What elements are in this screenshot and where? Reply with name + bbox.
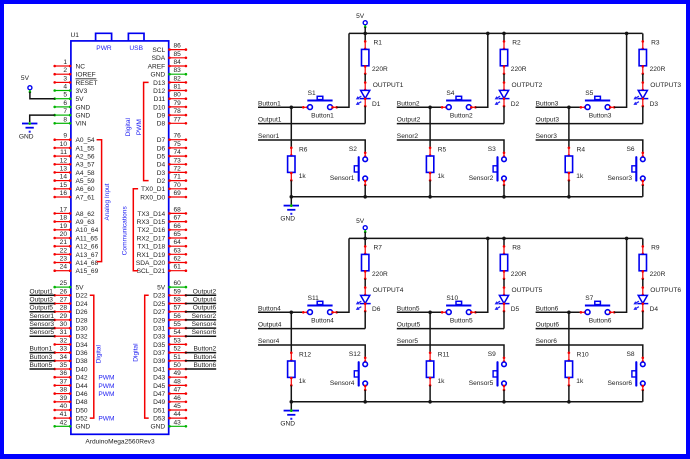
wire Senor6 <box>536 345 643 358</box>
pin 80 (D11) right <box>154 92 188 103</box>
svg-text:78: 78 <box>174 108 182 115</box>
svg-text:D10: D10 <box>153 104 165 111</box>
svg-text:S8: S8 <box>627 351 635 358</box>
svg-text:53: 53 <box>174 337 182 344</box>
svg-text:VIN: VIN <box>76 121 87 128</box>
pin 13 (A4_58) left <box>53 165 94 176</box>
net label Sensor5 (U1 left) <box>30 329 55 336</box>
wire R3 to D3 <box>642 74 644 83</box>
svg-text:Button2: Button2 <box>397 100 420 107</box>
pin 65 (RX2_D17) right <box>137 231 188 242</box>
svg-text:Sensor5: Sensor5 <box>469 380 494 387</box>
svg-text:Sensor6: Sensor6 <box>192 329 217 336</box>
svg-text:Digital: Digital <box>125 118 132 137</box>
wire S12 to GND rail <box>364 390 366 402</box>
svg-text:65: 65 <box>174 231 182 238</box>
switch S4 <box>441 90 477 110</box>
svg-text:D41: D41 <box>153 366 165 373</box>
svg-text:D34: D34 <box>76 342 88 349</box>
svg-text:Communications: Communications <box>121 206 128 256</box>
pin 73 (D4) right <box>157 157 187 168</box>
wire Button5 <box>397 311 443 313</box>
svg-text:D37: D37 <box>153 350 165 357</box>
net label Sensor2 (U1 right) <box>185 313 217 320</box>
wire Output2 <box>397 123 504 125</box>
svg-text:10: 10 <box>60 141 68 148</box>
svg-text:5V: 5V <box>21 75 30 82</box>
svg-text:Output3: Output3 <box>536 117 560 124</box>
svg-text:46: 46 <box>174 395 182 402</box>
pin 58 (D25) right <box>153 297 187 308</box>
wire D4 cathode to Output6 <box>642 311 644 328</box>
svg-text:GND: GND <box>151 72 166 79</box>
svg-text:74: 74 <box>174 149 182 156</box>
junction S2 / GND rail <box>363 195 367 199</box>
svg-text:70: 70 <box>174 182 182 189</box>
svg-text:Output3: Output3 <box>30 297 54 304</box>
resistor R7 <box>362 238 389 280</box>
svg-text:D7: D7 <box>157 137 166 144</box>
svg-text:Button6: Button6 <box>193 362 216 369</box>
svg-text:D3: D3 <box>157 170 166 177</box>
pin 54 (D33) right <box>153 329 187 340</box>
svg-text:A3_57: A3_57 <box>76 162 95 169</box>
svg-text:82: 82 <box>174 75 182 82</box>
svg-text:A11_65: A11_65 <box>76 235 99 242</box>
pin 7 (GND) left <box>53 108 90 119</box>
svg-text:Button4: Button4 <box>258 305 281 312</box>
svg-text:75: 75 <box>174 141 182 148</box>
pin 37 (D44) left <box>53 378 88 389</box>
pin 14 (A5_59) left <box>53 174 94 185</box>
svg-text:D5: D5 <box>157 154 166 161</box>
svg-text:Sensor6: Sensor6 <box>608 380 633 387</box>
net label Button5 (U1 left) <box>30 362 55 369</box>
supply +5V (left) <box>21 75 32 93</box>
pin 28 (D26) left <box>53 305 88 316</box>
pin 40 (D50) left <box>53 403 88 414</box>
group bracket Digital/PWM (D13-D2) <box>144 82 149 180</box>
svg-text:OUTPUT2: OUTPUT2 <box>512 82 543 89</box>
svg-text:D8: D8 <box>157 121 166 128</box>
pin 5 (5V) left <box>53 92 84 103</box>
svg-text:5V: 5V <box>157 285 166 292</box>
pin 32 (D34) left <box>53 337 88 348</box>
pin 42 (GND) left <box>53 419 90 430</box>
svg-text:71: 71 <box>174 174 182 181</box>
svg-text:22: 22 <box>60 247 68 254</box>
svg-text:TX3_D14: TX3_D14 <box>137 211 165 218</box>
net label Sensor3 (U1 left) <box>30 321 55 328</box>
wire Output6 <box>536 328 643 330</box>
LED D5 <box>495 286 520 313</box>
svg-text:R6: R6 <box>299 146 308 153</box>
svg-text:Output2: Output2 <box>193 288 217 295</box>
svg-text:A9_63: A9_63 <box>76 219 95 226</box>
group bracket Digital (D23-D53) bottom-right <box>145 295 149 418</box>
svg-text:S9: S9 <box>488 351 496 358</box>
wire 5V to rail <box>364 232 366 238</box>
svg-text:Button1: Button1 <box>30 346 53 353</box>
svg-text:220R: 220R <box>511 66 527 73</box>
svg-text:19: 19 <box>60 223 68 230</box>
svg-text:52: 52 <box>174 346 182 353</box>
wire Button2 <box>397 106 443 108</box>
svg-text:TX2_D16: TX2_D16 <box>137 227 165 234</box>
svg-text:40: 40 <box>60 403 68 410</box>
svg-text:D29: D29 <box>153 317 165 324</box>
wire S11 to 5V rail <box>337 238 350 312</box>
junction Button3 / R4 <box>567 106 571 110</box>
svg-text:62: 62 <box>174 256 182 263</box>
svg-text:S5: S5 <box>585 90 593 97</box>
svg-text:Button1: Button1 <box>258 100 281 107</box>
svg-text:D1: D1 <box>372 101 381 108</box>
svg-text:41: 41 <box>60 411 68 418</box>
junction Button5 / R11 <box>428 311 432 315</box>
svg-text:30: 30 <box>60 321 68 328</box>
svg-text:D50: D50 <box>76 407 88 414</box>
svg-text:D53: D53 <box>153 416 165 423</box>
svg-text:GND: GND <box>19 133 34 140</box>
pin 1 (NC) left <box>53 59 85 70</box>
wire Button6 <box>536 311 582 313</box>
wire Output5 <box>397 328 504 330</box>
svg-text:PWR: PWR <box>96 45 112 52</box>
svg-text:1k: 1k <box>438 378 446 385</box>
junction S9 / GND rail <box>502 400 506 404</box>
svg-text:Output4: Output4 <box>193 297 217 304</box>
pin 31 (D32) left <box>53 329 88 340</box>
pin 8 (VIN) left <box>53 116 86 127</box>
svg-text:A4_58: A4_58 <box>76 170 95 177</box>
svg-text:44: 44 <box>174 411 182 418</box>
wire R9 to D4 <box>642 279 644 288</box>
supply +5V (circuit row 2) <box>356 218 367 233</box>
resistor R11 1k <box>426 312 449 402</box>
svg-text:Output5: Output5 <box>30 305 54 312</box>
ground GND (left) <box>19 122 38 140</box>
switch S11 <box>302 295 338 315</box>
svg-text:R5: R5 <box>438 146 447 153</box>
svg-text:PWM: PWM <box>98 375 114 382</box>
svg-text:54: 54 <box>174 329 182 336</box>
net label Button3 (U1 left) <box>30 354 55 361</box>
svg-text:GND: GND <box>280 420 295 427</box>
svg-text:12: 12 <box>60 157 68 164</box>
LED D2 <box>495 81 520 108</box>
svg-text:1k: 1k <box>576 378 584 385</box>
svg-text:Senor3: Senor3 <box>536 133 558 140</box>
wire Button1 <box>258 106 304 108</box>
svg-text:5: 5 <box>63 92 67 99</box>
svg-text:D48: D48 <box>76 399 88 406</box>
svg-text:R1: R1 <box>374 39 383 46</box>
svg-text:Output6: Output6 <box>536 322 560 329</box>
pin 52 (D37) right <box>153 346 187 357</box>
svg-text:28: 28 <box>60 305 68 312</box>
svg-text:23: 23 <box>60 256 68 263</box>
pin 71 (D2) right <box>157 174 187 185</box>
svg-text:D11: D11 <box>154 96 166 103</box>
net label Output5 (U1 left) <box>30 305 55 312</box>
svg-text:D46: D46 <box>76 391 88 398</box>
svg-text:SCL_D21: SCL_D21 <box>137 268 166 275</box>
pin 79 (D10) right <box>153 100 187 111</box>
pin 47 (D47) right <box>153 387 187 398</box>
svg-text:S6: S6 <box>627 146 635 153</box>
group bracket Analog Input (A0_54-A15_69) <box>97 140 102 262</box>
svg-text:S4: S4 <box>446 90 454 97</box>
pin 59 (D23) right <box>153 288 187 299</box>
wire R8 to D5 <box>503 279 505 288</box>
svg-text:A2_56: A2_56 <box>76 154 95 161</box>
svg-text:D28: D28 <box>76 317 88 324</box>
svg-text:RESET: RESET <box>76 80 98 87</box>
svg-text:D38: D38 <box>76 358 88 365</box>
pin 9 (A0_54) left <box>53 133 94 144</box>
svg-text:31: 31 <box>60 329 68 336</box>
svg-text:7: 7 <box>63 108 67 115</box>
net label Sensor6 (U1 right) <box>185 329 217 336</box>
wire GND supply to pin 7 <box>30 115 55 122</box>
LED D4 <box>633 286 658 313</box>
svg-text:220R: 220R <box>372 66 388 73</box>
pin 55 (D31) right <box>153 321 187 332</box>
svg-text:220R: 220R <box>511 271 527 278</box>
svg-text:A5_59: A5_59 <box>76 178 95 185</box>
svg-text:73: 73 <box>174 157 182 164</box>
svg-text:69: 69 <box>174 190 182 197</box>
svg-text:R2: R2 <box>512 39 521 46</box>
svg-text:R7: R7 <box>374 244 383 251</box>
svg-text:GND: GND <box>76 424 91 431</box>
net label Button6 (U1 right) <box>185 362 217 369</box>
pin 82 (D13) right <box>153 75 187 86</box>
pin 26 (D22) left <box>53 288 88 299</box>
svg-text:15: 15 <box>60 182 68 189</box>
pin 23 (A14_68) left <box>53 256 98 267</box>
pin 22 (A13_67) left <box>53 247 98 258</box>
wire S4 to 5V rail <box>475 33 488 107</box>
svg-text:5V: 5V <box>76 285 85 292</box>
pin 36 (D42) left <box>53 370 88 381</box>
pin 68 (TX3_D14) right <box>137 206 187 217</box>
svg-text:A0_54: A0_54 <box>76 137 95 144</box>
svg-text:Button2: Button2 <box>193 346 216 353</box>
svg-text:Digital: Digital <box>95 345 102 364</box>
svg-text:D24: D24 <box>76 301 88 308</box>
svg-text:2: 2 <box>63 67 67 74</box>
svg-text:32: 32 <box>60 337 68 344</box>
svg-text:D12: D12 <box>153 88 165 95</box>
svg-text:Analog Input: Analog Input <box>104 183 111 220</box>
svg-text:Button3: Button3 <box>589 113 612 120</box>
junction Button6 / R10 <box>567 311 571 315</box>
svg-text:D13: D13 <box>153 80 165 87</box>
svg-text:61: 61 <box>174 264 182 271</box>
junction rail / R2 <box>502 32 506 36</box>
svg-text:GND: GND <box>76 104 91 111</box>
svg-text:Button5: Button5 <box>450 318 473 325</box>
net label Button1 (U1 left) <box>30 346 55 353</box>
svg-text:33: 33 <box>60 346 68 353</box>
svg-text:Sensor2: Sensor2 <box>469 175 494 182</box>
pin 85 (SDA) right <box>152 51 188 62</box>
svg-text:D36: D36 <box>76 350 88 357</box>
svg-text:D42: D42 <box>76 375 88 382</box>
svg-text:37: 37 <box>60 378 68 385</box>
svg-text:D35: D35 <box>153 342 165 349</box>
svg-text:D23: D23 <box>153 293 165 300</box>
svg-text:5V: 5V <box>356 13 365 20</box>
pin 72 (D3) right <box>157 165 187 176</box>
pin 24 (A15_69) left <box>53 264 98 275</box>
svg-text:A13_67: A13_67 <box>76 252 99 259</box>
svg-text:GND: GND <box>76 113 91 120</box>
pin 78 (D9) right <box>157 108 187 119</box>
junction S12 / GND rail <box>363 400 367 404</box>
ground GND (circuit row 1) <box>280 197 299 223</box>
svg-text:49: 49 <box>174 370 182 377</box>
svg-text:D2: D2 <box>157 178 166 185</box>
svg-text:3V3: 3V3 <box>76 88 88 95</box>
svg-text:Sensor3: Sensor3 <box>608 175 633 182</box>
svg-text:D26: D26 <box>76 309 88 316</box>
pin 63 (RX1_D19) right <box>137 247 188 258</box>
svg-text:72: 72 <box>174 165 182 172</box>
svg-text:IOREF: IOREF <box>76 72 96 79</box>
svg-text:Button2: Button2 <box>450 113 473 120</box>
svg-text:Output5: Output5 <box>397 322 421 329</box>
svg-text:D2: D2 <box>511 101 520 108</box>
svg-text:80: 80 <box>174 92 182 99</box>
pin 10 (A1_55) left <box>53 141 94 152</box>
wire S2 to GND rail <box>364 185 366 197</box>
wire D1 cathode to Output1 <box>364 106 366 123</box>
svg-text:66: 66 <box>174 223 182 230</box>
svg-text:NC: NC <box>76 63 86 70</box>
svg-text:83: 83 <box>174 67 182 74</box>
switch S12 (Sensor4) <box>330 351 368 391</box>
svg-text:20: 20 <box>60 231 68 238</box>
svg-text:S7: S7 <box>585 295 593 302</box>
ground GND (circuit row 2) <box>280 402 299 428</box>
svg-text:29: 29 <box>60 313 68 320</box>
svg-text:16: 16 <box>60 190 68 197</box>
net label Output3 (U1 left) <box>30 297 55 304</box>
wire bottom GND rail <box>291 401 642 403</box>
svg-text:3: 3 <box>63 75 67 82</box>
svg-text:SCL: SCL <box>152 47 165 54</box>
svg-text:A14_68: A14_68 <box>76 260 99 267</box>
pin 39 (D48) left <box>53 395 88 406</box>
svg-text:1k: 1k <box>576 173 584 180</box>
junction Button2 / R5 <box>428 106 432 110</box>
net label Sensor1 (U1 left) <box>30 313 55 320</box>
wire S3 to GND rail <box>503 185 505 197</box>
svg-text:Sensor4: Sensor4 <box>192 321 217 328</box>
junction below 5V <box>363 32 367 36</box>
pin 46 (D49) right <box>153 395 187 406</box>
svg-text:4: 4 <box>63 84 67 91</box>
svg-text:R10: R10 <box>577 351 589 358</box>
pin 3 (RESET) left <box>53 75 97 86</box>
svg-text:GND: GND <box>280 215 295 222</box>
svg-text:R11: R11 <box>438 351 450 358</box>
svg-text:D31: D31 <box>153 326 165 333</box>
svg-text:39: 39 <box>60 395 68 402</box>
pin 45 (D51) right <box>153 403 187 414</box>
svg-text:D6: D6 <box>157 145 166 152</box>
svg-text:6: 6 <box>63 100 67 107</box>
svg-text:Button5: Button5 <box>30 362 53 369</box>
svg-text:Output1: Output1 <box>30 288 54 295</box>
svg-text:A7_61: A7_61 <box>76 194 95 201</box>
wire S1 to 5V rail <box>337 33 350 107</box>
wire 5V rail <box>349 237 643 239</box>
pin 44 (D53) right <box>153 411 187 422</box>
svg-text:5V: 5V <box>76 96 85 103</box>
svg-text:D3: D3 <box>650 101 659 108</box>
resistor R6 1k <box>288 107 308 197</box>
resistor R5 1k <box>426 107 446 197</box>
svg-text:PWM: PWM <box>136 119 143 135</box>
wire R1 to D1 <box>364 74 366 83</box>
supply +5V (circuit row 1) <box>356 13 367 28</box>
svg-text:Sensor2: Sensor2 <box>192 313 217 320</box>
svg-text:R9: R9 <box>651 244 660 251</box>
svg-text:D4: D4 <box>650 306 659 313</box>
svg-text:D51: D51 <box>153 407 165 414</box>
USB connector tab <box>128 33 144 52</box>
svg-text:79: 79 <box>174 100 182 107</box>
resistor R4 1k <box>565 107 585 197</box>
svg-text:SDA_D20: SDA_D20 <box>136 260 166 267</box>
svg-text:OUTPUT4: OUTPUT4 <box>373 287 404 294</box>
svg-text:84: 84 <box>174 59 182 66</box>
junction rail / R8 <box>502 237 506 241</box>
svg-text:13: 13 <box>60 165 68 172</box>
net label Output4 (U1 right) <box>185 297 217 304</box>
switch S3 (Sensor2) <box>469 146 507 186</box>
svg-text:47: 47 <box>174 387 182 394</box>
svg-text:R3: R3 <box>651 39 660 46</box>
pin 6 (GND) left <box>53 100 90 111</box>
wire S6 to GND rail <box>642 185 644 197</box>
svg-text:Sensor5: Sensor5 <box>30 329 55 336</box>
svg-text:D4: D4 <box>157 162 166 169</box>
svg-text:9: 9 <box>63 133 67 140</box>
group bracket Digital (D22-D52) bottom-left <box>90 295 94 418</box>
pin 41 (D52) left <box>53 411 88 422</box>
svg-text:18: 18 <box>60 215 68 222</box>
resistor R12 1k <box>288 312 312 402</box>
wire Output3 <box>536 123 643 125</box>
pin 11 (A2_56) left <box>53 149 94 160</box>
svg-text:50: 50 <box>174 362 182 369</box>
svg-text:R8: R8 <box>512 244 521 251</box>
svg-text:26: 26 <box>60 288 68 295</box>
svg-text:Button4: Button4 <box>193 354 216 361</box>
wire Output4 <box>258 328 365 330</box>
pin 64 (TX1_D18) right <box>137 239 187 250</box>
svg-text:Senor2: Senor2 <box>397 133 419 140</box>
svg-text:1: 1 <box>63 59 67 66</box>
group bracket Communications (TX0_D1-SCL_D21) <box>133 189 138 271</box>
LED D6 <box>356 286 381 313</box>
pin 43 (GND) right <box>151 419 188 430</box>
